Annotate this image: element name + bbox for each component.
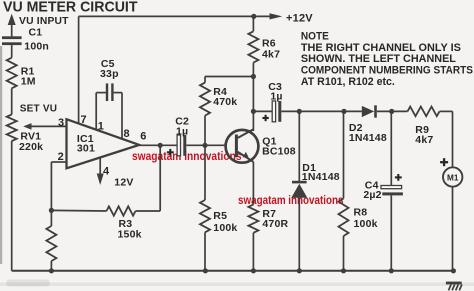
svg-text:1N4148: 1N4148	[302, 171, 340, 183]
svg-text:3: 3	[58, 117, 64, 129]
svg-text:6: 6	[140, 131, 146, 143]
svg-text:SHOWN. THE LEFT CHANNEL: SHOWN. THE LEFT CHANNEL	[301, 53, 456, 65]
svg-text:NOTE: NOTE	[301, 31, 329, 43]
svg-text:1N4148: 1N4148	[349, 132, 387, 144]
svg-text:COMPONENT NUMBERING STARTS: COMPONENT NUMBERING STARTS	[301, 65, 473, 77]
svg-text:4k7: 4k7	[262, 49, 280, 61]
svg-text:301: 301	[77, 142, 95, 154]
svg-text:7: 7	[81, 114, 87, 126]
svg-text:33p: 33p	[100, 68, 119, 80]
svg-text:AT R101, R102 etc.: AT R101, R102 etc.	[301, 76, 395, 88]
svg-text:M1: M1	[447, 173, 459, 182]
svg-text:12V: 12V	[114, 176, 133, 188]
svg-text:4: 4	[103, 165, 110, 177]
svg-text:150k: 150k	[118, 229, 142, 241]
svg-text:+12V: +12V	[286, 13, 313, 25]
svg-text:C1: C1	[29, 27, 43, 39]
svg-text:100k: 100k	[354, 218, 378, 230]
svg-text:2: 2	[58, 151, 64, 163]
svg-text:1µ: 1µ	[270, 91, 282, 103]
svg-text:1µ: 1µ	[176, 125, 188, 137]
svg-text:R5: R5	[213, 210, 227, 222]
svg-text:4k7: 4k7	[415, 134, 433, 146]
svg-text:VU INPUT: VU INPUT	[19, 16, 69, 27]
svg-text:SET VU: SET VU	[20, 103, 57, 114]
svg-text:THE RIGHT CHANNEL ONLY IS: THE RIGHT CHANNEL ONLY IS	[301, 42, 461, 54]
svg-text:1M: 1M	[21, 76, 36, 88]
svg-text:470k: 470k	[213, 96, 237, 108]
svg-text:BC108: BC108	[262, 145, 296, 157]
svg-text:VU METER CIRCUIT: VU METER CIRCUIT	[3, 0, 138, 16]
svg-text:R8: R8	[354, 207, 368, 219]
svg-text:100k: 100k	[213, 222, 237, 234]
svg-text:100n: 100n	[24, 41, 49, 53]
svg-text:8: 8	[124, 128, 130, 140]
svg-text:R6: R6	[262, 37, 276, 49]
svg-text:220k: 220k	[19, 141, 43, 153]
svg-text:470R: 470R	[262, 218, 288, 230]
svg-text:2µ2: 2µ2	[363, 189, 381, 201]
svg-text:1: 1	[98, 120, 104, 132]
